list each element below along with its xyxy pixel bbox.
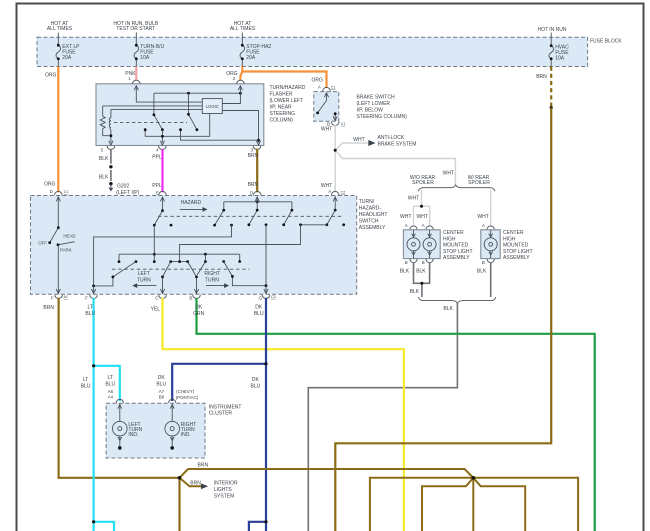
svg-text:ASSEMBLY: ASSEMBLY [443, 255, 470, 261]
hazard feed rail from pin D [256, 197, 258, 210]
svg-text:MOUNTED: MOUNTED [503, 243, 529, 249]
svg-text:RIGHT: RIGHT [204, 271, 220, 277]
svg-text:10A: 10A [555, 56, 565, 62]
svg-text:A6: A6 [108, 389, 114, 394]
wire WHT w/ spoiler branch [490, 190, 492, 227]
flasher internal top rail [154, 92, 241, 94]
coupling dashed line (turn switch) [112, 268, 250, 270]
wire PPL from flasher pin 4 to switch pin E [161, 149, 163, 193]
svg-text:WHT: WHT [477, 214, 488, 220]
svg-text:TURN: TURN [137, 277, 151, 283]
contact link and riser to right-turn feed [301, 224, 327, 226]
svg-text:HAZARD-: HAZARD- [359, 206, 382, 212]
svg-text:LEFT: LEFT [138, 271, 150, 277]
svg-text:I/P, BELOW: I/P, BELOW [357, 108, 384, 114]
svg-text:A: A [482, 223, 485, 228]
contact dot to lamp feed rail [230, 224, 233, 227]
svg-text:B: B [422, 260, 425, 265]
svg-text:TURN: TURN [205, 277, 219, 283]
svg-text:LT: LT [83, 377, 88, 383]
svg-text:BLK: BLK [443, 306, 453, 312]
headlight switch output to pin F [57, 245, 59, 294]
switch pin D connector (BRN) [253, 191, 261, 195]
right turn indicator bulb [165, 404, 180, 450]
pin 5 connector [107, 146, 115, 150]
svg-text:C1: C1 [331, 86, 336, 90]
svg-text:BLK: BLK [99, 156, 109, 162]
flasher switch pole 2 [189, 93, 197, 130]
wire WHT w/o spoiler branch [421, 190, 423, 206]
brake switch box [314, 92, 339, 122]
svg-text:BLK: BLK [410, 289, 420, 295]
svg-text:IND.: IND. [181, 432, 191, 438]
turn switch rail [119, 253, 240, 255]
contact dot to pin G column [265, 223, 268, 226]
headlight switch: pin D lead [57, 197, 59, 228]
svg-text:CENTER: CENTER [503, 230, 524, 236]
junction on WHT at brake switch output [334, 149, 337, 152]
pin 2 connector [237, 80, 245, 84]
mid-run labels LT BLU (main) [81, 377, 91, 390]
CHMSL w/o spoiler pin B connectors [410, 259, 417, 263]
svg-text:TEST OR START: TEST OR START [116, 26, 155, 32]
flasher internal: pin1 lead with arrow [136, 86, 202, 103]
svg-text:C2: C2 [341, 190, 346, 194]
wire BRN fan-out center leg [472, 478, 474, 531]
svg-text:DK: DK [195, 305, 203, 311]
svg-text:BLU: BLU [156, 382, 166, 388]
wire BRN fan-out inner-right leg [473, 478, 525, 531]
bulb (w/ spoiler CHMSL) [484, 230, 497, 258]
svg-text:PPL: PPL [152, 154, 162, 160]
svg-text:SPOILER: SPOILER [412, 180, 434, 186]
switch pin B connector (DK GRN) [193, 295, 201, 299]
svg-text:WHT: WHT [417, 214, 428, 220]
svg-text:(PONTIAC): (PONTIAC) [176, 395, 199, 400]
left turn switch arm [135, 260, 138, 263]
svg-text:WHT: WHT [443, 171, 454, 177]
mid-run labels DK BLU (main) [251, 377, 261, 390]
svg-text:A: A [405, 223, 408, 228]
svg-text:STOP LIGHT: STOP LIGHT [443, 249, 473, 255]
svg-text:BLK: BLK [400, 268, 410, 274]
svg-text:ORG: ORG [44, 181, 56, 187]
coupling dashed line (hazard switch) [158, 215, 344, 217]
fuse HVAC 10A [549, 33, 569, 67]
switch pin G connector (DK BLU) [262, 295, 270, 299]
svg-text:DK: DK [252, 377, 260, 383]
svg-text:20A: 20A [246, 55, 256, 61]
wire DK BLU from switch pin G [265, 298, 267, 531]
wire YEL from switch pin C [163, 298, 404, 531]
pin 3 connector [253, 146, 261, 150]
wire DK GRN from switch pin B [197, 298, 595, 531]
CHMSL w/ spoiler assembly box [481, 230, 500, 259]
svg-text:ALL TIMES: ALL TIMES [47, 26, 73, 32]
svg-text:BLK: BLK [416, 268, 426, 274]
logic box U1a [202, 99, 222, 114]
right turn label with arrow [204, 270, 229, 283]
feed label HOT AT ALL TIMES (center) [230, 21, 256, 32]
switch pin C connector (YEL) [159, 295, 167, 299]
svg-text:D: D [250, 190, 253, 195]
pin E column down to left turn row [153, 225, 155, 262]
wire BLK from w/o spoiler CHMSL pins B [414, 262, 430, 283]
svg-text:TURN/HAZARD: TURN/HAZARD [270, 85, 306, 91]
wire BRN fan-out left leg [370, 478, 473, 531]
wire BLK from flasher pin 5 to ground G202 [110, 149, 112, 164]
wire BRN bridge between junctions [180, 469, 474, 478]
svg-text:BRN: BRN [198, 463, 209, 469]
switch pin E connector (PPL) [159, 191, 167, 195]
svg-text:DK: DK [158, 375, 166, 381]
CHMSL w/o spoiler assembly box [403, 230, 440, 259]
svg-text:STEERING COLUMN): STEERING COLUMN) [357, 114, 408, 120]
CHMSL w/o spoiler: pin A connectors [410, 226, 417, 230]
hazard pole (rail left) [215, 202, 224, 225]
wire LT BLU from switch pin F [92, 298, 94, 531]
svg-text:I/P, NEAR: I/P, NEAR [270, 105, 293, 111]
switch pin F connector (LT BLU) [90, 295, 98, 299]
hazard pole from pin A [334, 197, 336, 210]
left BRN junction [178, 476, 182, 480]
fuse EXT LP 20A [56, 33, 80, 67]
wire BRN from flasher pin 3 to switch pin D [256, 149, 258, 193]
pin 1 connector [133, 80, 141, 84]
headlight switch OFF arm [50, 228, 59, 243]
svg-text:ALL TIMES: ALL TIMES [230, 26, 256, 32]
wire ORG from STOP-HAZ fuse to flasher pin 2 and brake switch [242, 67, 326, 88]
ground G202 [109, 182, 112, 185]
svg-text:G: G [259, 296, 263, 301]
left turn label with arrow [134, 270, 157, 283]
feed label HOT IN RUN BULB TEST OR START [113, 21, 159, 32]
svg-text:BRAKE SYSTEM: BRAKE SYSTEM [378, 142, 417, 148]
svg-text:C1: C1 [64, 190, 69, 194]
svg-text:BLU: BLU [251, 384, 261, 390]
svg-text:LIGHTS: LIGHTS [214, 487, 233, 493]
svg-text:INTERIOR: INTERIOR [214, 481, 238, 487]
svg-text:B: B [189, 296, 192, 301]
wire BRN from switch pin F to interior lights junction [59, 298, 180, 478]
svg-text:A: A [328, 189, 331, 194]
wire BRN fan-out inner-left leg [422, 478, 473, 531]
BLK merge brace [418, 297, 495, 303]
svg-text:BRN: BRN [248, 182, 259, 188]
svg-text:WHT: WHT [353, 137, 364, 143]
svg-text:LT: LT [107, 375, 112, 381]
svg-text:HOT IN RUN: HOT IN RUN [537, 27, 566, 33]
svg-text:BRAKE SWITCH: BRAKE SWITCH [357, 95, 395, 101]
flasher coupling dashed line [114, 121, 187, 123]
wire PNK from TURN-B/U fuse to flasher pin 1 [135, 67, 137, 81]
resistor (flasher) [100, 116, 111, 135]
flasher internal: logic bottom to pin 4 rail [145, 114, 210, 137]
svg-text:E: E [156, 190, 159, 195]
svg-text:WHT: WHT [400, 214, 411, 220]
svg-text:OFF: OFF [38, 240, 47, 245]
hazard pole (rail right) [284, 202, 292, 225]
svg-text:COLUMN): COLUMN) [270, 118, 294, 124]
contact dot [170, 224, 173, 227]
CHMSL w/ spoiler pin B connector [487, 259, 494, 263]
svg-text:(LEFT LOWER: (LEFT LOWER [357, 101, 391, 107]
svg-text:MOUNTED: MOUNTED [443, 243, 469, 249]
svg-text:HAZARD: HAZARD [181, 200, 202, 206]
svg-text:F: F [85, 296, 88, 301]
svg-text:BLU: BLU [85, 311, 95, 317]
svg-text:B8: B8 [159, 395, 165, 400]
svg-text:STEERING: STEERING [270, 111, 296, 117]
wire BLK merged to bottom [308, 303, 457, 531]
wire BRN arrow to interior lights system [180, 478, 202, 487]
svg-text:IND.: IND. [128, 432, 138, 438]
option split brace [418, 185, 495, 191]
svg-text:BLU: BLU [254, 311, 264, 317]
svg-text:F: F [51, 296, 54, 301]
svg-text:HEAD: HEAD [63, 234, 75, 239]
fuse STOP-HAZ 20A [240, 33, 271, 67]
flasher internal: contact riser to pin3 rail [181, 130, 259, 141]
svg-text:C: C [155, 296, 158, 301]
brake switch internals [326, 93, 328, 101]
svg-text:FLASHER: FLASHER [270, 92, 293, 98]
flasher switch pole 1 [154, 93, 163, 130]
bulb 2 (w/o spoiler CHMSL) [423, 230, 436, 258]
brake switch pin B connector [331, 122, 339, 126]
svg-text:ORG: ORG [45, 73, 57, 79]
flasher internal: logic right to pin 3 [222, 111, 258, 143]
turn/hazard-headlight switch assembly box [31, 196, 357, 295]
svg-text:PNK: PNK [125, 71, 136, 77]
CHMSL w/ spoiler: pin A connector [487, 226, 494, 230]
svg-text:(CHEVY): (CHEVY) [176, 389, 195, 394]
instrument cluster box [106, 403, 205, 458]
right turn switch arms [204, 254, 206, 261]
wire WHT branch to anti-lock brake system [335, 143, 367, 150]
svg-text:WHT: WHT [321, 127, 332, 133]
instrument cluster pin connectors [116, 399, 123, 403]
svg-text:PARK: PARK [60, 248, 72, 253]
svg-text:A7: A7 [159, 389, 165, 394]
w/o rear spoiler , w/ rear spoiler option labels [410, 175, 436, 186]
svg-text:WHT: WHT [408, 195, 419, 201]
svg-text:A4: A4 [108, 395, 114, 400]
svg-text:A1: A1 [64, 295, 68, 299]
svg-text:SPOILER: SPOILER [468, 180, 490, 186]
svg-text:HEADLIGHT: HEADLIGHT [359, 212, 388, 218]
svg-text:PPL: PPL [152, 183, 162, 189]
svg-text:HIGH: HIGH [503, 236, 516, 242]
svg-text:GRN: GRN [193, 311, 205, 317]
flasher internal: pin2 lead with arrow [222, 86, 240, 104]
pin 4 connector [159, 146, 167, 150]
svg-text:YEL: YEL [151, 307, 161, 313]
svg-text:A: A [318, 85, 321, 90]
coil (flasher) [109, 118, 111, 143]
svg-text:TURN/: TURN/ [359, 199, 375, 205]
svg-text:SWITCH: SWITCH [359, 219, 379, 225]
svg-text:BRN: BRN [190, 481, 201, 487]
hazard pole (pin D) [249, 210, 257, 225]
turn feed splitter (trapezoid) [171, 261, 188, 263]
turn/hazard flasher U1 box [96, 84, 264, 146]
bulb 1 (w/o spoiler CHMSL) [407, 230, 420, 258]
svg-text:D: D [50, 189, 53, 194]
svg-text:BRN: BRN [536, 74, 547, 80]
flasher internal rail to coil [111, 110, 202, 118]
cluster feed labels LT BLU / A6 / A4 [105, 375, 115, 388]
svg-text:BRN: BRN [43, 305, 54, 311]
svg-text:G202: G202 [117, 183, 129, 189]
svg-text:BLK: BLK [477, 268, 487, 274]
switch pin A connector (WHT) / C2 [331, 191, 339, 195]
svg-text:ORG: ORG [312, 78, 324, 84]
hazard pole from pin E [162, 197, 164, 211]
svg-text:BLU: BLU [105, 382, 115, 388]
svg-text:10A: 10A [140, 55, 150, 61]
svg-text:LOGIC: LOGIC [206, 104, 219, 109]
svg-text:CENTER: CENTER [443, 230, 464, 236]
switch output to pin F (LT BLU) [93, 286, 95, 294]
switch pin F connector (BRN) [55, 295, 63, 299]
feed label HOT AT ALL TIMES (left) [47, 21, 73, 32]
wire ORG from EXT LP fuse to switch pin D [57, 67, 59, 193]
fuse TURN-B/U 10A [134, 33, 165, 67]
wire BRN fan-out right leg [473, 478, 578, 531]
contact dot far right [342, 223, 345, 226]
switch pin D connector (ORG) [55, 191, 63, 195]
flasher internal rail to resistor [103, 106, 203, 116]
cluster feed labels DK BLU / A7 / B8 [156, 375, 166, 388]
right BRN junction [472, 476, 476, 480]
fuse block box [37, 37, 588, 66]
svg-text:ANTI-LOCK: ANTI-LOCK [378, 135, 405, 141]
svg-text:A: A [422, 223, 425, 228]
svg-text:BLU: BLU [81, 384, 91, 390]
svg-text:LT: LT [87, 305, 92, 311]
brake switch pin A connector [323, 87, 331, 91]
wire BLK from w/ spoiler CHMSL pin B [490, 262, 492, 297]
switch output to pin G (DK BLU) [265, 286, 267, 294]
wire WHT branch to CHMSL split [335, 150, 455, 184]
svg-text:STOP LIGHT: STOP LIGHT [503, 249, 533, 255]
svg-text:BLK: BLK [99, 175, 109, 181]
svg-text:SYSTEM: SYSTEM [214, 494, 235, 500]
svg-text:DK: DK [255, 305, 263, 311]
headlight switch PARK arm [58, 242, 75, 245]
left turn indicator bulb [113, 404, 128, 450]
svg-text:HIGH: HIGH [443, 236, 456, 242]
svg-text:(LOWER LEFT: (LOWER LEFT [270, 98, 304, 104]
svg-text:CLUSTER: CLUSTER [209, 410, 233, 416]
svg-text:B: B [482, 260, 485, 265]
svg-text:C3: C3 [271, 295, 276, 299]
svg-text:ASSEMBLY: ASSEMBLY [359, 225, 386, 231]
svg-text:B: B [405, 260, 408, 265]
wire BRN down from left junction [178, 478, 180, 531]
svg-text:BRN: BRN [248, 153, 259, 159]
svg-text:FUSE BLOCK: FUSE BLOCK [590, 39, 622, 45]
svg-text:20A: 20A [62, 55, 72, 61]
svg-text:C1: C1 [341, 122, 346, 126]
svg-text:ASSEMBLY: ASSEMBLY [503, 255, 530, 261]
